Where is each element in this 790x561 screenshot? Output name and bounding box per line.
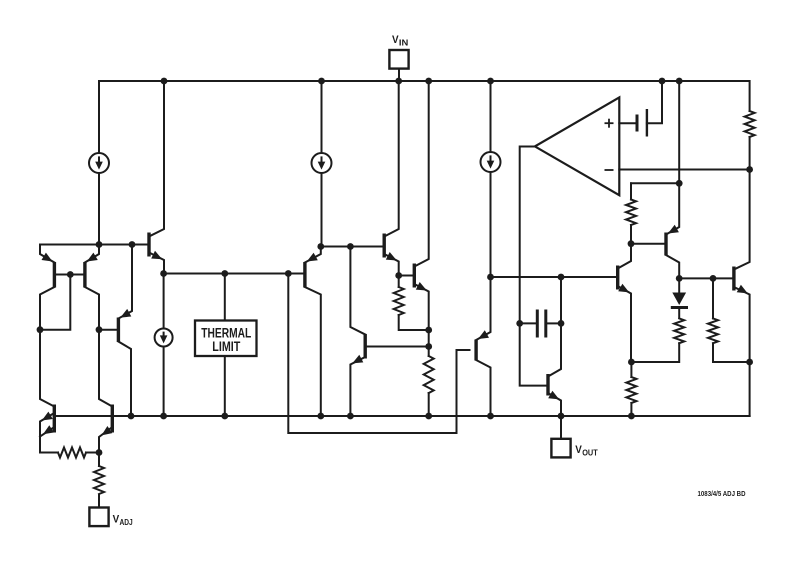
transistor Q5 base bar bbox=[117, 318, 120, 343]
transistor Q9b base bar bbox=[413, 264, 416, 288]
wire Q12 collector bbox=[618, 244, 631, 269]
current source I4 bbox=[155, 329, 173, 347]
wire B2 down to Q4 collector bbox=[99, 330, 112, 407]
node J bbox=[676, 275, 683, 282]
wire Q2 collector bbox=[85, 287, 99, 330]
wire Q5 emitter bbox=[118, 245, 132, 319]
wire I3 to node E bbox=[490, 172, 492, 277]
wire Q10 emitter bbox=[476, 277, 490, 340]
svg-text:IN: IN bbox=[399, 38, 408, 48]
resistor R2 bbox=[94, 466, 104, 494]
wire Q4 emitter bbox=[99, 427, 112, 453]
wire R3 to node G bbox=[399, 315, 429, 330]
wire node E bus bbox=[491, 276, 618, 278]
wire cap right lead bbox=[548, 322, 561, 324]
transistor Q1 base bar bbox=[53, 262, 56, 288]
node A2 bbox=[129, 241, 136, 248]
wire Q6 emitter bbox=[149, 253, 164, 274]
wire node H to Q13 base bbox=[631, 243, 666, 245]
node thermal-rail bbox=[221, 413, 228, 420]
pin Q1 emitter arrow bbox=[42, 253, 53, 262]
transistor Q12 base bar bbox=[616, 266, 619, 290]
wire Q14 collector bbox=[734, 170, 750, 270]
op-amp U1 bbox=[535, 97, 619, 195]
node C1 bbox=[317, 243, 324, 250]
node K bbox=[628, 359, 635, 366]
wire Q11 collector bbox=[548, 323, 561, 376]
node cap-left bbox=[516, 320, 523, 327]
pin Q4 emitter arrow bbox=[102, 426, 113, 435]
transistor Q9a base bar bbox=[383, 234, 386, 258]
wire mirror base to collector bbox=[40, 275, 70, 330]
wire Q2 emitter bbox=[85, 245, 99, 263]
node F bbox=[395, 272, 402, 279]
wire Q3 emitter 2 bbox=[40, 427, 54, 437]
wire R5 to node H bbox=[630, 225, 632, 244]
wire minus input bus bbox=[619, 169, 749, 171]
wire I1 to node A bbox=[98, 173, 100, 245]
pin Q14 emitter arrow bbox=[737, 285, 748, 294]
node mirror base bbox=[67, 271, 74, 278]
pin Q3 emitter 1 arrow bbox=[42, 412, 53, 421]
wire minus tap bus bbox=[631, 182, 679, 184]
node minus bbox=[746, 166, 753, 173]
node A1 bbox=[96, 241, 103, 248]
svg-text:V: V bbox=[575, 444, 582, 456]
wire I2 to node C bbox=[321, 173, 323, 247]
wire I4 to ground rail bbox=[163, 347, 165, 417]
node B-thermal bbox=[221, 270, 228, 277]
resistor R7 bbox=[674, 318, 684, 343]
node H bbox=[628, 240, 635, 247]
wire Q9b collector bbox=[414, 81, 428, 267]
node J2 bbox=[710, 275, 717, 282]
wire battery to rail bbox=[647, 81, 662, 123]
wire Q9a emitter bbox=[384, 254, 399, 276]
node B1 bbox=[37, 326, 44, 333]
terminal VOUT stem bbox=[560, 416, 562, 439]
battery B1 long plate bbox=[646, 109, 648, 137]
node E1 bbox=[487, 274, 494, 281]
transistor Q7 base bar bbox=[303, 262, 306, 288]
svg-text:V: V bbox=[392, 34, 399, 46]
node Q5 collector-rail bbox=[128, 413, 135, 420]
node R8-rail bbox=[628, 413, 635, 420]
terminal VADJ bbox=[89, 508, 132, 528]
node rail-battery junction bbox=[659, 78, 666, 85]
wire R9 to minus node bbox=[749, 137, 751, 170]
wire Q7 collector bbox=[305, 287, 321, 416]
transistor Q2 base bar bbox=[83, 262, 86, 288]
wire Q6 collector bbox=[149, 81, 164, 237]
pin Q12 emitter arrow bbox=[618, 284, 629, 293]
pin Q9b emitter arrow bbox=[416, 282, 427, 291]
wire node J bus bbox=[679, 277, 734, 279]
resistor R8 bbox=[626, 377, 636, 403]
wire node G to base tap bbox=[428, 330, 430, 347]
wire node B to I4 bbox=[163, 274, 165, 329]
pin Q6 emitter arrow bbox=[151, 251, 162, 259]
wire Q8 collector bbox=[350, 247, 365, 335]
wire Q9a collector bbox=[384, 81, 399, 237]
wire Q1 collector bbox=[40, 287, 54, 330]
pin Q13 emitter arrow bbox=[668, 225, 679, 234]
node B-I4 bbox=[160, 270, 167, 277]
node VOUT junction bbox=[558, 413, 565, 420]
resistor R6 bbox=[708, 318, 718, 343]
terminal VOUT bbox=[551, 439, 598, 458]
block THERMAL LIMIT bbox=[195, 321, 257, 357]
node B2 bbox=[96, 326, 103, 333]
block thermal limit connection bottom bbox=[224, 357, 226, 417]
wire node J to D1 bbox=[678, 278, 680, 293]
capacitor C1 left plate bbox=[536, 310, 539, 338]
node D bbox=[96, 449, 103, 456]
resistor R1 bbox=[58, 448, 86, 458]
wire bottom rail bbox=[54, 415, 749, 417]
wire R8 to rail bbox=[630, 403, 632, 416]
pin Q7 emitter arrow bbox=[307, 253, 318, 262]
node R4-rail bbox=[425, 413, 432, 420]
node B-bypass bbox=[285, 270, 292, 277]
terminal VADJ stem bbox=[98, 494, 100, 508]
wire node B bus bbox=[164, 273, 305, 275]
node rail-Q5 junction bbox=[161, 78, 168, 85]
wire op-amp output to Q11 base bbox=[520, 147, 548, 386]
node cap-right bbox=[558, 320, 565, 327]
wire Q14 emitter bbox=[734, 287, 750, 416]
wire minus node to R5 bbox=[630, 183, 632, 199]
node rail-CS3 junction bbox=[487, 78, 494, 85]
node rail-Q13 junction bbox=[676, 78, 683, 85]
wire node K to R8 bbox=[630, 362, 632, 377]
terminal VIN bbox=[389, 34, 408, 69]
diode D1 bbox=[671, 293, 688, 319]
transistor Q6 base bar bbox=[147, 233, 150, 257]
wire plus input to battery bbox=[619, 122, 635, 124]
wire node G2 to R4 bbox=[428, 347, 430, 357]
node C2 bbox=[347, 243, 354, 250]
capacitor C1 right plate bbox=[544, 310, 547, 338]
current source I3 bbox=[481, 152, 501, 172]
node rail-Q2 junction bbox=[425, 78, 432, 85]
wire Q9b emitter bbox=[414, 284, 428, 330]
svg-text:V: V bbox=[113, 513, 120, 525]
terminal VIN stem bbox=[398, 69, 400, 82]
wire Q3 emitter 1 bbox=[40, 413, 54, 453]
wire rail to I3 bbox=[490, 81, 492, 152]
wire Q12 emitter bbox=[618, 286, 631, 362]
transistor Q11 base bar bbox=[546, 374, 549, 396]
node Q10 collector-rail bbox=[487, 413, 494, 420]
wire rail to I2 bbox=[321, 81, 323, 153]
transistor Q8 base bar bbox=[364, 334, 367, 359]
wire node A bus bbox=[40, 244, 149, 246]
pin Q8 emitter arrow bbox=[352, 355, 363, 364]
transistor Q14 base bar bbox=[732, 267, 735, 291]
node Q7 collector-rail bbox=[317, 413, 324, 420]
transistor Q4 base bar bbox=[111, 405, 114, 433]
transistor Q3 base bar bbox=[53, 405, 56, 433]
node L bbox=[746, 359, 753, 366]
wire Q7 emitter bbox=[305, 247, 321, 263]
current source I1 bbox=[89, 153, 109, 173]
wire R1 to node D bbox=[86, 452, 99, 454]
wire node C bus bbox=[322, 246, 385, 248]
resistor R5 bbox=[626, 200, 636, 226]
node G2 bbox=[425, 343, 432, 350]
resistor R4 bbox=[424, 356, 434, 393]
block thermal limit connection top bbox=[224, 274, 226, 321]
wire Q3 emitters to R1 bbox=[40, 452, 58, 454]
wire R6 to emitter line bbox=[713, 343, 750, 362]
wire R4 to rail bbox=[428, 393, 430, 416]
wire node E2 down bbox=[560, 277, 562, 323]
svg-text:OUT: OUT bbox=[582, 448, 598, 458]
resistor R3 bbox=[394, 287, 404, 315]
wire Q10 collector bbox=[476, 360, 490, 416]
wire Q5 base bbox=[99, 329, 118, 331]
pin Q11 emitter arrow bbox=[548, 391, 559, 400]
wire Q11 emitter bbox=[548, 393, 561, 416]
wire node D to R2 bbox=[98, 453, 100, 467]
node G bbox=[425, 327, 432, 334]
wire rail to minus tap bbox=[678, 81, 680, 183]
wire Q5 collector bbox=[118, 342, 131, 417]
wire Q13 emitter bbox=[666, 183, 679, 234]
svg-text:LIMIT: LIMIT bbox=[212, 339, 241, 354]
wire node J2 to R6 bbox=[712, 278, 714, 318]
wire top supply rail bbox=[99, 81, 750, 153]
wire B1 down to Q3 collector bbox=[40, 330, 54, 407]
current source I2 bbox=[312, 153, 332, 173]
wire node F to R3 bbox=[398, 276, 400, 288]
svg-text:ADJ: ADJ bbox=[120, 517, 133, 527]
pin Q5 emitter arrow bbox=[120, 309, 131, 318]
pin Q10 emitter arrow bbox=[478, 330, 489, 339]
wire Q1 emitter bbox=[40, 245, 54, 263]
pin Q9a emitter arrow bbox=[386, 252, 397, 261]
transistor Q13 base bar bbox=[664, 233, 667, 256]
battery B1 short plate bbox=[636, 115, 639, 132]
pin Q2 emitter arrow bbox=[87, 253, 98, 262]
transistor Q10 base bar bbox=[474, 340, 477, 361]
wire Q1-Q2 base tie bbox=[54, 274, 85, 276]
wire cap left lead bbox=[520, 322, 535, 324]
svg-text:1083/4/5 ADJ BD: 1083/4/5 ADJ BD bbox=[698, 489, 746, 498]
resistor R9 bbox=[745, 111, 755, 137]
node E2 bbox=[558, 274, 565, 281]
node I4-rail bbox=[160, 413, 167, 420]
wire Q8 base bbox=[365, 346, 429, 348]
node VIN junction bbox=[395, 78, 402, 85]
wire R7 to node K bbox=[631, 343, 679, 362]
pin Q3 emitter 2 arrow bbox=[43, 425, 54, 434]
wire Q8 emitter bbox=[350, 357, 365, 416]
node minus tap bbox=[676, 180, 683, 187]
node Q8 emitter-rail bbox=[347, 413, 354, 420]
wire Q13 collector bbox=[666, 255, 679, 278]
wire Q9b base bbox=[399, 275, 415, 277]
node rail-CS2 junction bbox=[318, 78, 325, 85]
wire node B bypass to Q10 base bbox=[288, 274, 469, 434]
